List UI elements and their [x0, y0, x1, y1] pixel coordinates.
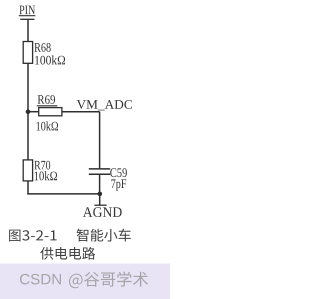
node VM_ADC net label: [77, 100, 132, 110]
resistor R69: [39, 108, 62, 116]
wire corner down to C59: [99, 112, 101, 169]
wire R68 to junction and R70: [27, 63, 29, 160]
PIN underline: [19, 15, 36, 17]
wire junction to R69: [28, 111, 39, 113]
wire R70 to bottom rail: [27, 181, 29, 194]
watermark @谷哥学术: [69, 272, 148, 289]
pin port bar: [20, 18, 34, 20]
value 7pF: [111, 179, 126, 190]
caption line1 智能小车: [77, 229, 131, 242]
label R70: [34, 161, 50, 170]
node PIN net label text: [19, 6, 35, 15]
value 10kΩ of R69: [37, 121, 59, 130]
wire C59 to bottom junction: [99, 174, 101, 194]
wire R69 to corner: [62, 111, 100, 113]
capacitor C59 top plate: [89, 168, 110, 170]
junction dot AGND: [98, 192, 103, 197]
label C59: [110, 168, 127, 177]
wire bottom rail: [27, 193, 100, 195]
label R68: [34, 43, 50, 52]
R69 underline: [37, 105, 58, 107]
value 10kΩ of R70: [35, 171, 58, 180]
resistor R70: [23, 160, 32, 181]
junction dot node VM: [26, 109, 31, 114]
watermark band: [0, 264, 170, 299]
ground AGND label: [83, 207, 122, 217]
caption line1 figure char 图: [9, 230, 20, 242]
value 100kΩ: [35, 55, 65, 64]
label R69: [38, 95, 55, 104]
capacitor C59 bottom plate: [89, 173, 110, 175]
ground AGND bar: [94, 204, 106, 206]
wire junction to AGND bar: [99, 194, 101, 205]
watermark CSDN: [20, 274, 61, 285]
caption line2 供电电路: [40, 247, 95, 260]
resistor R68: [23, 42, 32, 64]
wire PIN to R68: [27, 19, 29, 41]
caption line1 number 3-2-1: [22, 230, 56, 240]
